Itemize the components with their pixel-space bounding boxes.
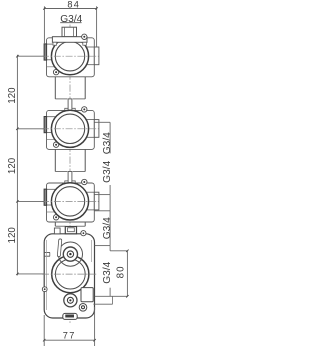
bottom valve body bbox=[42, 227, 113, 320]
main vertical centerline bbox=[69, 25, 71, 325]
dimension 80 right bbox=[95, 250, 129, 298]
port assembly 1 bbox=[42, 38, 99, 77]
body horizontal centerline bbox=[42, 273, 98, 275]
top stub of assembly 1 bbox=[62, 27, 77, 37]
svg-text:G3/4: G3/4 bbox=[102, 132, 113, 154]
bottom port rings bbox=[64, 294, 77, 307]
svg-text:120: 120 bbox=[7, 87, 18, 104]
top tab bbox=[54, 228, 60, 234]
top port rings bbox=[63, 247, 77, 261]
dimension 77 bottom bbox=[43, 307, 96, 346]
body outline bbox=[44, 234, 94, 318]
bottom boss bbox=[63, 313, 77, 319]
right side leader lines of body bbox=[93, 303, 112, 305]
top boss bbox=[65, 227, 76, 234]
nipple above assembly 2 bbox=[65, 99, 75, 111]
BR screw bbox=[79, 304, 87, 312]
svg-text:G3/4: G3/4 bbox=[102, 160, 113, 182]
svg-text:84: 84 bbox=[67, 0, 80, 10]
BL screw on body edge bbox=[42, 287, 47, 292]
port assembly 2 bbox=[42, 110, 99, 149]
svg-text:80: 80 bbox=[116, 265, 127, 278]
top-right screw on body bbox=[81, 231, 86, 236]
top port outer ring bbox=[58, 242, 82, 266]
svg-text:G3/4: G3/4 bbox=[102, 217, 113, 239]
label G3/4 right of assembly 3 lower bbox=[95, 195, 113, 246]
svg-text:G3/4: G3/4 bbox=[60, 14, 82, 25]
upper-right screw assembly 1 bbox=[82, 34, 87, 39]
neck assembly3-body bbox=[55, 218, 85, 226]
svg-text:120: 120 bbox=[7, 227, 18, 244]
label G3/4 right of body bbox=[95, 246, 113, 297]
collar of assembly 1 bbox=[52, 37, 87, 46]
neck assembly1-2 bbox=[55, 73, 85, 99]
port assembly 3 bbox=[42, 183, 99, 222]
cartridge circle bbox=[52, 256, 89, 293]
BR square pad bbox=[81, 288, 93, 302]
upper-right screw assembly 2 bbox=[82, 107, 87, 112]
label G3/4 right of assembly 2 bbox=[95, 122, 113, 154]
upper-right screw assembly 3 bbox=[82, 179, 87, 184]
svg-text:120: 120 bbox=[7, 157, 18, 174]
left port nub bbox=[44, 252, 50, 254]
label G3/4 right of assembly 3 upper bbox=[95, 160, 113, 194]
svg-text:G3/4: G3/4 bbox=[102, 261, 113, 283]
TL mounting slot bbox=[59, 240, 60, 255]
svg-text:77: 77 bbox=[63, 331, 76, 341]
neck assembly2-3 bbox=[55, 145, 85, 171]
dimension 120 left (three spans) bbox=[7, 55, 44, 276]
dimension 84 top bbox=[43, 0, 98, 47]
nipple above assembly 3 bbox=[65, 172, 75, 184]
